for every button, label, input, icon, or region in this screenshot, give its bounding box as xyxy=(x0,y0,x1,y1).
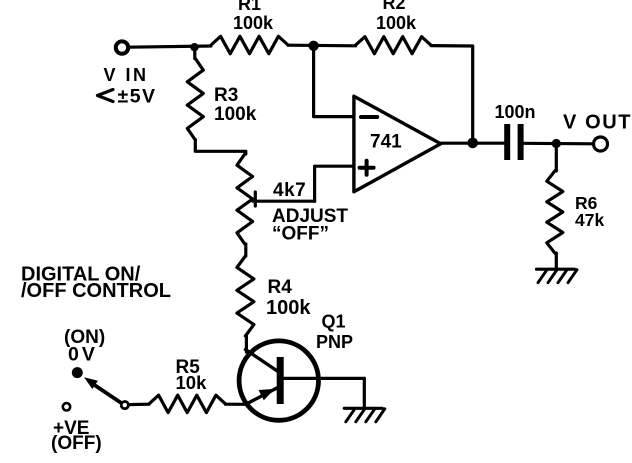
svg-text:741: 741 xyxy=(370,132,402,153)
svg-text:PNP: PNP xyxy=(316,332,353,352)
svg-text:V IN: V IN xyxy=(104,65,149,85)
svg-text:10k: 10k xyxy=(176,372,208,393)
svg-text:“OFF”: “OFF” xyxy=(272,224,329,245)
svg-text:100n: 100n xyxy=(495,102,536,122)
svg-text:R2: R2 xyxy=(383,0,406,13)
svg-text:100k: 100k xyxy=(266,297,311,319)
svg-text:4k7: 4k7 xyxy=(273,180,306,201)
svg-text:100k: 100k xyxy=(376,13,417,33)
svg-text:V OUT: V OUT xyxy=(563,112,632,134)
svg-text:R1: R1 xyxy=(238,0,261,14)
svg-text:R3: R3 xyxy=(214,85,238,106)
svg-text:0V: 0V xyxy=(68,344,98,366)
svg-text:±5V: ±5V xyxy=(118,86,157,108)
svg-text:R4: R4 xyxy=(268,277,293,298)
svg-text:47k: 47k xyxy=(575,210,604,230)
svg-text:100k: 100k xyxy=(233,13,274,33)
svg-text:Q1: Q1 xyxy=(322,312,346,332)
svg-text:100k: 100k xyxy=(214,104,257,125)
svg-text:(OFF): (OFF) xyxy=(51,433,102,454)
svg-text:/OFF CONTROL: /OFF CONTROL xyxy=(21,280,171,302)
